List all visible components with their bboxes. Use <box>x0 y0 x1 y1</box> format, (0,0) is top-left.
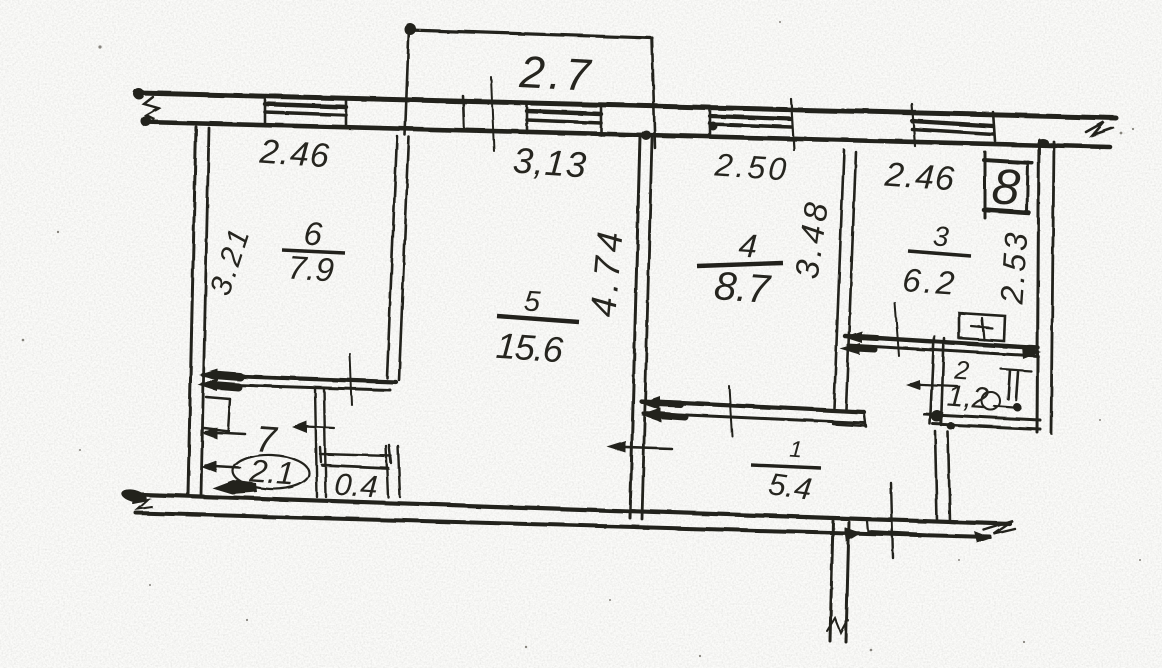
wall between room6 and room5 line a <box>387 136 397 378</box>
room7 door niche top <box>206 397 230 399</box>
left exterior wall outer line <box>188 127 196 494</box>
bottom wall left squiggle <box>133 500 152 509</box>
wall room4/room1 right stub <box>833 424 866 426</box>
room2 top wall left arrow a <box>843 331 862 343</box>
room6 bottom wall left arrow a <box>199 369 218 381</box>
room1 fraction bar <box>751 465 821 468</box>
lobby wall line b <box>948 432 950 522</box>
window room3 pane line upper <box>912 121 993 126</box>
room2 top wall left arrow b <box>840 343 860 355</box>
svg-text:5: 5 <box>523 285 542 318</box>
balcony front line <box>409 30 652 38</box>
room7 arrow line a <box>206 432 245 434</box>
closet second top line <box>322 465 388 468</box>
svg-text:15.6: 15.6 <box>495 325 566 371</box>
room7 big leader blob <box>212 480 257 494</box>
right exterior wall outer line <box>1051 142 1054 433</box>
svg-text:0.4: 0.4 <box>333 467 378 505</box>
room4 fraction bar <box>697 263 783 266</box>
right exterior wall inner line <box>1037 140 1039 432</box>
room2 left wall line b <box>941 338 944 425</box>
central wall room5/room4 line a <box>630 136 640 518</box>
bottom wall right end squiggle <box>984 521 1015 534</box>
room2 fitting top line <box>1001 369 1031 371</box>
balcony corner dot <box>404 23 416 35</box>
top wall left end dot A <box>134 89 145 100</box>
window room6 left jamb <box>264 97 267 126</box>
vent box 8 bottom side <box>984 210 1029 213</box>
svg-text:2.46: 2.46 <box>883 156 957 199</box>
window room4 right jamb tick <box>791 99 794 150</box>
svg-text:2.1: 2.1 <box>247 452 295 491</box>
dimension tick on room6 bottom wall <box>350 354 352 405</box>
svg-text:8.7: 8.7 <box>713 264 773 312</box>
balcony door jamb <box>463 96 464 127</box>
lobby wall line a <box>935 431 937 521</box>
closet left wall line b <box>324 389 326 497</box>
left exterior wall inner line <box>201 128 209 495</box>
wall room4/room3 line b <box>846 152 856 409</box>
top wall right break squiggle <box>1086 122 1113 135</box>
bottom exterior wall upper line <box>126 494 1010 524</box>
room2 door hinge dot <box>1013 403 1021 411</box>
dimension tick on bottom wall right <box>891 483 893 558</box>
wall room4/room3 line a <box>834 150 844 408</box>
top wall left end dot B <box>141 116 152 127</box>
room2 bottom wall dot b <box>947 422 955 430</box>
svg-text:4.74: 4.74 <box>582 225 631 318</box>
svg-text:6: 6 <box>303 214 325 252</box>
room2 door swing circle <box>982 392 1000 410</box>
central wall room5/room4 line b <box>642 138 652 519</box>
svg-text:5.4: 5.4 <box>766 466 814 507</box>
window room3 pane line lower <box>912 129 993 134</box>
vent box 8 right side <box>1027 162 1028 212</box>
svg-text:1,2: 1,2 <box>946 380 990 416</box>
bottom wall left end blob <box>120 487 148 505</box>
window room5 left jamb <box>526 103 529 133</box>
sink box tee horizontal <box>971 326 992 328</box>
room6 bottom wall upper line <box>203 375 396 382</box>
window room6 pane line upper <box>265 104 346 107</box>
window room4 pane line lower <box>710 124 791 127</box>
entry stem line b <box>846 522 849 642</box>
room7 door niche bottom <box>204 428 229 431</box>
svg-text:1: 1 <box>789 436 804 463</box>
wall room4/room1 right jog <box>864 411 866 427</box>
room7 arrow line b <box>206 466 240 468</box>
room6 bottom wall lower line <box>202 384 390 390</box>
wall between room6 and room5 line b <box>399 137 409 380</box>
wall room4/room1 upper line <box>641 401 864 412</box>
svg-text:7.9: 7.9 <box>287 248 335 288</box>
svg-text:6.2: 6.2 <box>901 261 958 302</box>
room2 fitting bars <box>1008 370 1010 399</box>
central wall top dot <box>641 130 651 140</box>
room2 top wall lower line <box>848 345 1038 356</box>
sink box <box>959 313 1005 341</box>
dimension tick on room4/room1 wall <box>729 386 732 436</box>
entry stem line a <box>830 521 833 641</box>
room2 door tick <box>911 384 957 386</box>
top exterior wall upper line <box>139 93 1116 118</box>
svg-text:8: 8 <box>990 158 1022 216</box>
sink box tee vertical <box>982 318 984 340</box>
balcony right side <box>652 38 655 148</box>
bottom exterior wall lower line <box>136 513 990 537</box>
dimension tick between 2.46 and 3.13 <box>491 77 494 151</box>
window room3 left jamb tick <box>912 104 915 146</box>
entry stem top blob <box>844 527 861 542</box>
room2 door leaf line <box>994 406 1020 408</box>
room6 fraction bar <box>282 250 345 253</box>
window room4 left jamb <box>709 108 712 137</box>
room6 bottom wall left arrow b <box>198 379 217 391</box>
svg-text:2.46: 2.46 <box>258 133 332 176</box>
window room5 pane line lower <box>527 120 601 123</box>
svg-text:2.50: 2.50 <box>713 146 791 187</box>
window room4 pane line upper <box>710 116 791 119</box>
room2 left wall line a <box>930 336 934 424</box>
closet top line <box>320 454 391 456</box>
closet door tick <box>296 426 334 428</box>
vent box 8 left side <box>984 152 987 218</box>
room5 fraction bar <box>497 316 579 322</box>
top exterior wall lower line <box>144 122 1110 147</box>
room2 top wall upper line <box>845 336 1038 348</box>
balcony left side <box>405 27 409 135</box>
closet top right hook <box>389 445 391 463</box>
window room6 right jamb <box>345 100 348 128</box>
window room5 right jamb <box>600 106 603 135</box>
bottom wall lower line arrowhead <box>974 531 992 543</box>
room2 bottom wall lower line <box>933 424 1040 429</box>
room2 bottom wall upper line <box>924 414 1040 420</box>
entry stem bottom squiggle <box>827 618 848 633</box>
window room3 right jamb <box>993 112 995 141</box>
room2 top wall right arrow <box>1022 345 1041 359</box>
vent box 8 top side <box>984 160 1032 163</box>
wall room4/room1 left arrow a <box>640 396 660 410</box>
closet left wall line a <box>315 388 317 497</box>
svg-text:4: 4 <box>738 226 759 264</box>
room2 bottom wall dot a <box>931 410 943 422</box>
closet right wall line b <box>398 446 400 497</box>
svg-text:2.53: 2.53 <box>993 229 1034 307</box>
door arrow room1 left <box>612 447 672 449</box>
closet top left hook <box>320 447 321 462</box>
top wall left break squiggle <box>144 97 158 119</box>
wall room4/room1 left arrow b <box>641 408 661 422</box>
wall room4/room1 lower line <box>643 413 864 423</box>
dimension tick room3 door <box>895 303 899 356</box>
svg-text:2.7: 2.7 <box>517 46 595 101</box>
window room6 pane line lower <box>265 112 346 115</box>
svg-text:3: 3 <box>932 220 950 252</box>
bottom wall jog line <box>868 531 926 534</box>
room7 oval outline <box>232 454 309 491</box>
svg-text:3,13: 3,13 <box>512 139 589 185</box>
room3 fraction bar <box>908 251 971 256</box>
window room4 left dot <box>709 122 718 131</box>
window room5 pane line upper <box>527 111 601 114</box>
bottom wall jog vertical <box>867 521 868 532</box>
right wall top junction dot <box>1037 139 1049 147</box>
room7 door niche right <box>228 399 230 431</box>
closet right wall line a <box>386 446 388 497</box>
